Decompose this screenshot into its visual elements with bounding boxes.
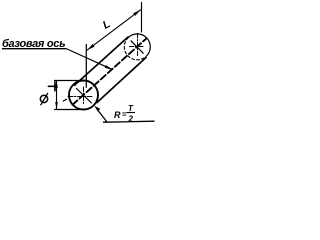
node C2 perpendicular diagonal <box>131 41 143 53</box>
underline of label base axis <box>3 48 67 50</box>
arrowhead T top <box>55 81 58 89</box>
leader line R with shelf <box>97 109 108 123</box>
extension line top for diameter T <box>55 80 87 82</box>
axis centerline (bold dashed, base axis) <box>73 38 147 105</box>
node C1 center cross horizontal <box>68 96 92 98</box>
arrowhead leader axis <box>105 65 113 70</box>
dimension line L <box>87 10 140 50</box>
dimension line diameter T <box>56 81 58 110</box>
cylinder body circle C1 (near end, solid) <box>69 81 98 110</box>
svg-text:T: T <box>128 104 134 113</box>
node C2 center cross vertical <box>137 34 139 56</box>
svg-text:L: L <box>101 18 113 32</box>
upper tangent outline of cylinder <box>75 37 129 85</box>
svg-text:2: 2 <box>128 115 134 124</box>
node C1 perpendicular diagonal <box>77 89 92 104</box>
lower tangent outline of cylinder <box>97 58 146 103</box>
stray centerline dash <box>63 99 66 101</box>
extension line bottom for diameter T <box>55 109 81 111</box>
svg-text:=: = <box>122 110 127 119</box>
arrowhead L left <box>87 44 94 50</box>
svg-text:R: R <box>114 110 121 120</box>
arrowhead T bottom <box>55 102 58 110</box>
extension line left (vertical, for L dimension) <box>85 45 87 88</box>
arrowhead leader R <box>94 106 100 112</box>
cylinder far end circle C2 hidden arc (dashed) <box>124 38 146 60</box>
extension line right (vertical, for L dimension) <box>141 3 143 33</box>
label: diameter T <box>40 82 55 105</box>
node C1 center cross vertical <box>83 87 85 105</box>
svg-text:базовая ось: базовая ось <box>2 38 65 50</box>
arrowhead L right <box>133 10 140 16</box>
node C2 center cross horizontal <box>130 46 145 48</box>
cylinder far end circle C2 visible arc (solid) <box>128 34 150 56</box>
leader line from label to axis <box>66 49 112 70</box>
